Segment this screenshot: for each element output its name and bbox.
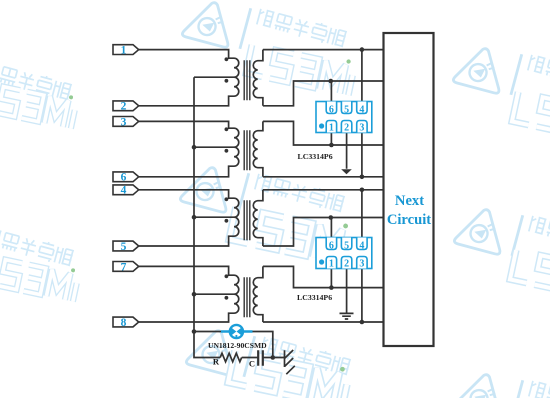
svg-text:6: 6 bbox=[121, 172, 127, 184]
svg-text:C: C bbox=[249, 358, 255, 368]
svg-text:1: 1 bbox=[121, 45, 127, 57]
svg-text:LC3314P6: LC3314P6 bbox=[298, 152, 333, 161]
svg-text:7: 7 bbox=[121, 261, 127, 273]
svg-text:R: R bbox=[213, 356, 220, 366]
svg-text:5: 5 bbox=[121, 241, 127, 253]
svg-text:4: 4 bbox=[121, 185, 127, 197]
svg-text:1: 1 bbox=[329, 258, 334, 269]
svg-text:UN1812-90CSMD: UN1812-90CSMD bbox=[208, 341, 267, 350]
svg-text:3: 3 bbox=[359, 122, 364, 133]
svg-text:4: 4 bbox=[359, 105, 364, 116]
svg-text:6: 6 bbox=[329, 105, 334, 116]
svg-text:2: 2 bbox=[344, 258, 349, 269]
svg-text:4: 4 bbox=[359, 241, 364, 252]
svg-text:5: 5 bbox=[344, 241, 349, 252]
svg-text:2: 2 bbox=[121, 101, 127, 113]
svg-text:LC3314P6: LC3314P6 bbox=[297, 293, 332, 302]
svg-text:2: 2 bbox=[344, 122, 349, 133]
svg-text:3: 3 bbox=[359, 258, 364, 269]
svg-text:Circuit: Circuit bbox=[387, 212, 431, 228]
svg-text:Next: Next bbox=[395, 193, 424, 209]
svg-text:3: 3 bbox=[121, 116, 127, 128]
svg-text:1: 1 bbox=[329, 122, 334, 133]
svg-text:8: 8 bbox=[121, 317, 127, 329]
svg-text:6: 6 bbox=[329, 241, 334, 252]
svg-text:5: 5 bbox=[344, 105, 349, 116]
